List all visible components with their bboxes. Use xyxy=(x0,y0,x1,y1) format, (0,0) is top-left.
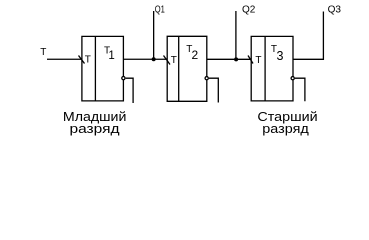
flip-flop U1 box xyxy=(82,36,124,101)
wire input T to U1 xyxy=(47,58,82,60)
node Q1 label xyxy=(155,4,165,16)
node T input label xyxy=(40,47,46,58)
svg-text:T: T xyxy=(255,55,261,66)
svg-text:3: 3 xyxy=(277,49,284,63)
svg-text:разряд: разряд xyxy=(70,121,120,136)
inverted output bubble U1 xyxy=(122,76,125,79)
svg-text:1: 1 xyxy=(108,50,114,62)
dynamic input slash U3 xyxy=(248,56,253,64)
value label T1 of U1 xyxy=(104,46,115,62)
node Q3 label xyxy=(328,4,342,16)
svg-text:T: T xyxy=(171,55,177,66)
wire U3 Q output to Q3 xyxy=(293,12,323,60)
caption most significant bit xyxy=(257,109,317,136)
flip-flop U2 box xyxy=(167,36,207,101)
svg-text:Q1: Q1 xyxy=(155,4,165,16)
wire Q2 up xyxy=(235,11,237,59)
svg-text:2: 2 xyxy=(192,48,199,62)
wire U3 inverted output hook xyxy=(295,78,305,101)
node junction dot Q1 xyxy=(152,57,156,61)
pin label T of U1 xyxy=(85,55,91,66)
caption least significant bit xyxy=(63,109,127,136)
pin label T of U3 xyxy=(255,55,261,66)
dynamic input slash U2 xyxy=(164,56,171,65)
inverted output bubble U3 xyxy=(291,77,294,80)
dynamic input slash U1 xyxy=(79,56,85,64)
node junction dot Q2 xyxy=(234,57,238,61)
node Q2 label xyxy=(242,4,256,16)
wire U1 inverted output hook xyxy=(126,78,133,103)
svg-text:Q3: Q3 xyxy=(328,4,342,16)
svg-text:T: T xyxy=(85,55,91,66)
wire U2 inverted output hook xyxy=(209,78,218,102)
value label T3 of U3 xyxy=(271,44,284,63)
inverted output bubble U2 xyxy=(205,77,208,80)
wire Q1 up xyxy=(153,11,155,59)
svg-text:Q2: Q2 xyxy=(242,4,256,16)
pin label T of U2 xyxy=(171,55,177,66)
svg-text:разряд: разряд xyxy=(262,121,309,136)
value label T2 of U2 xyxy=(186,44,198,62)
svg-text:T: T xyxy=(40,47,46,58)
flip-flop U3 box xyxy=(251,36,293,101)
wire U1 Q output to U2 xyxy=(123,58,167,60)
wire U2 Q output to U3 xyxy=(207,58,251,60)
